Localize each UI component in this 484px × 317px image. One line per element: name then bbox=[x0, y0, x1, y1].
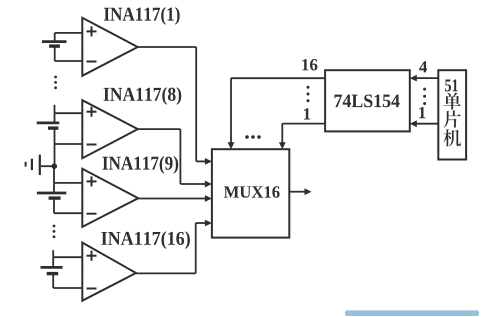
pin label 4 bbox=[419, 61, 427, 72]
wire MUX16 output bbox=[289, 188, 311, 195]
dots battery string cells 1..8 bbox=[54, 76, 57, 90]
pin label 1 bbox=[304, 108, 310, 119]
op-amp U3 INA117(9) bbox=[82, 169, 138, 227]
pin label 1 bbox=[419, 107, 425, 118]
op-amp U4 INA117(16) bbox=[82, 243, 136, 301]
dots MCU address lines bbox=[423, 88, 426, 105]
dots select lines above MUX16 bbox=[245, 135, 261, 139]
label INA117(1) bbox=[104, 7, 180, 25]
wire U3 output to MUX16 input 9 bbox=[138, 195, 212, 202]
wire 51 MCU to 74LS154 address line 4 bbox=[410, 75, 439, 82]
wire 74LS154 select line 1 to MUX16 bbox=[279, 124, 325, 150]
label INA117(16) bbox=[101, 231, 190, 249]
battery cell B4 bbox=[41, 250, 83, 288]
MUX16 block bbox=[212, 149, 289, 237]
pin label 16 bbox=[302, 59, 317, 70]
battery cell B3 bbox=[37, 166, 82, 213]
node: battery string midpoint junction bbox=[52, 163, 58, 169]
battery cell B1 bbox=[42, 33, 82, 61]
op-amp U2 INA117(8) bbox=[82, 100, 138, 158]
74LS154 block bbox=[325, 70, 410, 131]
wire 74LS154 select line 16 to MUX16 bbox=[228, 78, 326, 149]
battery cell B2 bbox=[37, 105, 83, 166]
wire U1 output to MUX16 input 1 bbox=[138, 47, 212, 165]
51 MCU block bbox=[438, 70, 466, 159]
wire U4 output to MUX16 input 16 bbox=[136, 220, 212, 274]
dots battery string cells 9..16 bbox=[53, 225, 56, 239]
ground bbox=[26, 155, 52, 175]
label INA117(8) bbox=[104, 87, 182, 105]
wire 51 MCU to 74LS154 address line 1 bbox=[410, 120, 439, 127]
wire U2 output to MUX16 input 8 bbox=[138, 129, 212, 187]
label INA117(9) bbox=[102, 156, 178, 174]
op-amp U1 INA117(1) bbox=[82, 18, 137, 76]
dots select lines 74LS154 bbox=[307, 86, 310, 103]
